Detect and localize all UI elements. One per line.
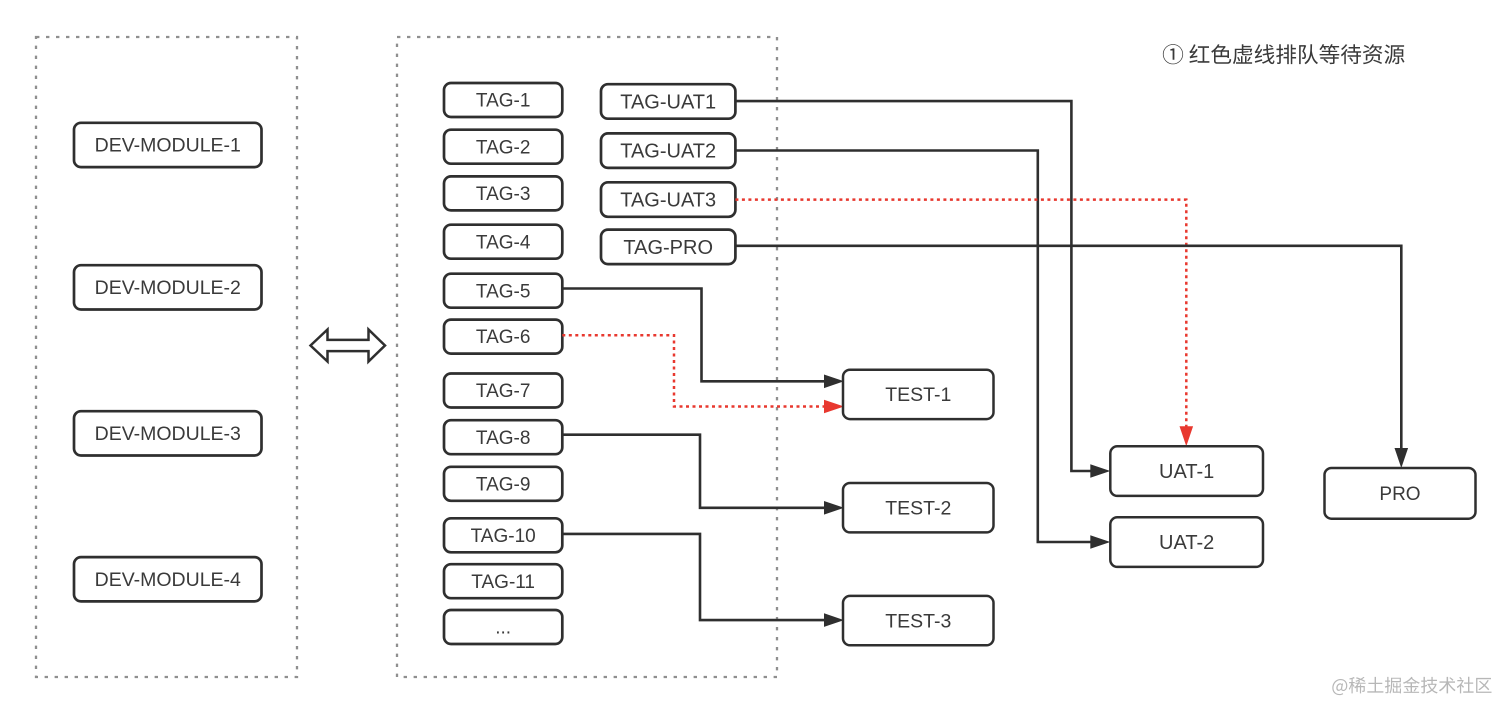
svg-text:TAG-7: TAG-7 bbox=[476, 381, 531, 402]
svg-text:TAG-UAT2: TAG-UAT2 bbox=[620, 141, 716, 163]
svg-text:TAG-9: TAG-9 bbox=[476, 474, 531, 495]
svg-text:DEV-MODULE-2: DEV-MODULE-2 bbox=[95, 277, 241, 299]
wire TAG-PRO to PRO bbox=[735, 246, 1401, 449]
box UAT-2 bbox=[1110, 517, 1263, 567]
box TEST-2 bbox=[843, 483, 994, 532]
watermark juejin community bbox=[1332, 677, 1491, 695]
svg-text:TAG-1: TAG-1 bbox=[476, 91, 531, 112]
box TAG-UAT1 bbox=[601, 84, 735, 119]
box TAG-3 bbox=[444, 176, 562, 210]
box TAG-10 bbox=[444, 518, 562, 552]
wire TAG-UAT1 to UAT-1 bbox=[735, 101, 1091, 471]
wire TAG-8 to TEST-2 bbox=[562, 435, 824, 508]
box TAG-4 bbox=[444, 225, 562, 259]
svg-text:...: ... bbox=[495, 618, 511, 639]
box TAG-2 bbox=[444, 130, 562, 164]
svg-text:TAG-11: TAG-11 bbox=[471, 572, 535, 593]
svg-text:TAG-6: TAG-6 bbox=[476, 327, 531, 348]
tags dashed container bbox=[397, 37, 777, 677]
svg-text:TAG-PRO: TAG-PRO bbox=[623, 237, 713, 259]
double arrow symbol bbox=[311, 330, 386, 362]
svg-text:PRO: PRO bbox=[1379, 484, 1420, 505]
svg-text:TAG-5: TAG-5 bbox=[476, 281, 531, 302]
box TAG-11 bbox=[444, 564, 562, 598]
svg-text:TAG-10: TAG-10 bbox=[471, 526, 536, 547]
red dotted wire TAG-UAT3 to UAT-1 bbox=[735, 200, 1186, 427]
box TAG-5 bbox=[444, 274, 562, 308]
box DEV-MODULE-4 bbox=[74, 557, 262, 601]
box DEV-MODULE-1 bbox=[74, 123, 262, 167]
svg-text:DEV-MODULE-1: DEV-MODULE-1 bbox=[95, 135, 241, 157]
wire TAG-5 to TEST-1 bbox=[562, 289, 824, 382]
red dotted wire TAG-6 to TEST-1 bbox=[562, 335, 824, 406]
wire TAG-10 to TEST-3 bbox=[562, 534, 824, 620]
box DEV-MODULE-2 bbox=[74, 265, 262, 309]
svg-text:TAG-8: TAG-8 bbox=[476, 428, 531, 449]
box TAG-6 bbox=[444, 320, 562, 354]
box TAG-UAT3 bbox=[601, 182, 735, 217]
box TAG-UAT2 bbox=[601, 133, 735, 168]
svg-text:TAG-2: TAG-2 bbox=[476, 137, 531, 158]
svg-text:DEV-MODULE-4: DEV-MODULE-4 bbox=[95, 569, 241, 591]
svg-text:TAG-UAT3: TAG-UAT3 bbox=[620, 190, 716, 212]
svg-text:TEST-2: TEST-2 bbox=[885, 497, 951, 519]
svg-text:TAG-3: TAG-3 bbox=[476, 184, 531, 205]
box DEV-MODULE-3 bbox=[74, 411, 262, 455]
box TAG-8 bbox=[444, 420, 562, 454]
svg-text:TEST-3: TEST-3 bbox=[885, 610, 951, 632]
box TAG-PRO bbox=[601, 230, 735, 265]
box PRO bbox=[1325, 468, 1476, 519]
annotation: circled-1 red dotted queue note bbox=[1163, 44, 1405, 64]
box TAG-7 bbox=[444, 374, 562, 408]
wire TAG-UAT2 to UAT-2 bbox=[735, 151, 1091, 543]
svg-text:DEV-MODULE-3: DEV-MODULE-3 bbox=[95, 423, 241, 445]
dev modules dashed container bbox=[36, 37, 297, 677]
box TAG-1 bbox=[444, 83, 562, 117]
box TAG-9 bbox=[444, 467, 562, 501]
svg-text:TAG-4: TAG-4 bbox=[476, 232, 531, 253]
svg-text:UAT-2: UAT-2 bbox=[1159, 532, 1214, 554]
box TEST-3 bbox=[843, 596, 994, 645]
svg-text:TAG-UAT1: TAG-UAT1 bbox=[620, 91, 716, 113]
box UAT-1 bbox=[1110, 446, 1263, 496]
box ... bbox=[444, 610, 562, 644]
svg-text:TEST-1: TEST-1 bbox=[885, 384, 951, 406]
box TEST-1 bbox=[843, 370, 994, 419]
svg-text:UAT-1: UAT-1 bbox=[1159, 461, 1214, 483]
